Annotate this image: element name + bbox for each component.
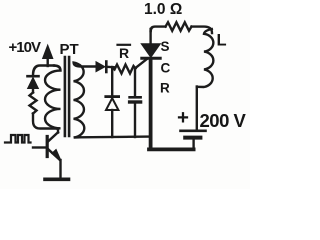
diode D1 [28,76,39,92]
resistor R2 (1.0 ohm zigzag) [166,22,192,31]
wire base lead [33,146,46,148]
transformer primary winding [45,66,61,129]
svg-text:200 V: 200 V [200,110,247,131]
svg-text:+: + [177,106,189,129]
svg-text:PT: PT [60,41,79,58]
diode D2 [96,62,114,73]
svg-text:C: C [161,61,171,76]
SCR U1 [142,29,160,149]
svg-text:S: S [161,39,170,54]
supply arrow [43,45,53,66]
capacitor C1 branch [130,69,141,138]
diode D3 branch [106,67,119,137]
wire top rail [151,27,166,31]
wire bottom rail [149,147,194,151]
wire secondary bottom rail [80,135,150,138]
resistor Rs (vertical zigzag) [30,93,37,114]
wire top rail right [192,27,213,33]
wire primary top [33,66,54,76]
svg-text:L: L [217,32,227,50]
wire gate diagonal [136,59,148,69]
transformer secondary winding [74,63,96,138]
wire inductor to battery [196,87,198,130]
inductor L [197,29,213,87]
svg-text:R: R [160,81,170,96]
wire branch bottom [33,114,57,129]
label R (overline) [118,45,131,61]
battery BT1 [181,131,206,149]
svg-text:1.0 Ω: 1.0 Ω [144,1,182,18]
pulse source waveform [5,135,31,143]
transistor Q1 [45,130,69,180]
resistor R (gate zigzag) [112,65,136,74]
transformer core [65,57,69,136]
label SCR [160,39,171,96]
svg-text:R: R [119,45,129,61]
svg-text:+10V: +10V [9,39,41,56]
